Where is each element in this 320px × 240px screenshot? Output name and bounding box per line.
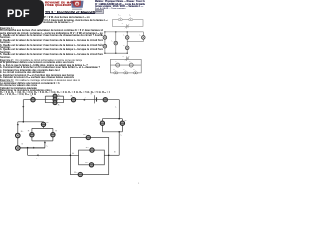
source G [15, 146, 20, 151]
circuit 2 [105, 32, 143, 53]
svg-text:L₂: L₂ [129, 14, 131, 16]
svg-text:I₂: I₂ [47, 145, 49, 147]
resistor Rg [78, 172, 82, 176]
lamp B3 [133, 72, 135, 74]
wire pair block output [44, 141, 46, 148]
battery G1 [126, 24, 128, 28]
svg-text:R₁₀: R₁₀ [83, 134, 86, 136]
wire pair block left branch [31, 128, 33, 141]
lamp D [125, 36, 129, 40]
lamp B2 [124, 72, 126, 74]
lamp F [125, 46, 129, 50]
logo emblem [71, 1, 84, 10]
lamp C [114, 41, 118, 45]
svg-text:L₃: L₃ [112, 40, 114, 42]
lamp M1 [116, 63, 120, 67]
svg-text:R₂: R₂ [58, 95, 61, 97]
svg-text:L₄: L₄ [123, 35, 125, 37]
lamp L1 [118, 19, 120, 21]
resistor Rf [89, 163, 93, 167]
wire right drop [118, 100, 120, 119]
svg-text:L₂: L₂ [129, 61, 131, 63]
wire pair block top rail [32, 127, 53, 129]
wire branch down to bottom bus [27, 148, 29, 156]
node parallel trio left rail [44, 96, 46, 103]
resistor R4 [53, 101, 57, 105]
battery E [94, 95, 96, 103]
lamp B [103, 44, 107, 48]
wire source to block [20, 147, 45, 149]
resistor R5 [71, 98, 75, 102]
svg-text:R₈: R₈ [21, 131, 24, 133]
svg-text:R: R [28, 130, 30, 132]
svg-text:I₁: I₁ [115, 107, 117, 109]
big circuit wires [33, 147, 35, 149]
resistor R8 [120, 121, 124, 125]
svg-text:E: E [123, 56, 125, 58]
wire left drop [22, 100, 24, 122]
lamp M2 [129, 63, 133, 67]
circuit 1 [112, 20, 143, 27]
lamp E [142, 36, 146, 40]
node parallel trio right rail [63, 96, 65, 103]
svg-text:I: I [85, 97, 86, 99]
inner box loop [79, 150, 105, 165]
svg-text:L₅: L₅ [139, 35, 141, 37]
circuit 3 [110, 59, 141, 73]
svg-text:I: I [37, 158, 38, 160]
current arrow I [83, 99, 86, 101]
svg-text:E: E [91, 93, 93, 95]
svg-text:L₁: L₁ [119, 14, 121, 16]
svg-text:R₆: R₆ [99, 120, 102, 122]
svg-text:G: G [122, 23, 124, 25]
svg-text:R: R [55, 130, 57, 132]
svg-text:L₆: L₆ [123, 45, 125, 47]
svg-text:B: B [114, 152, 116, 154]
svg-text:R₁₃: R₁₃ [74, 172, 77, 174]
svg-text:R₇: R₇ [125, 120, 128, 122]
svg-text:A: A [72, 152, 74, 155]
resistor R6 [103, 98, 107, 102]
svg-text:R₃: R₃ [58, 98, 61, 100]
wire bottom bus right part [104, 154, 119, 156]
svg-text:L₃: L₃ [113, 69, 115, 71]
wire pair block bottom rail [32, 140, 53, 142]
resistor R1 [31, 98, 35, 102]
svg-text:R₁₁: R₁₁ [86, 147, 89, 149]
outer box loop [70, 138, 108, 175]
wire bottom bus [28, 154, 79, 156]
resistor R2 [53, 94, 57, 98]
wire top rail [23, 99, 119, 101]
wire pair block right branch [52, 128, 54, 141]
resistor Rd [86, 135, 90, 139]
svg-text:R₄: R₄ [58, 105, 61, 107]
pdf badge [0, 0, 44, 26]
wire feed to pair block [43, 122, 45, 129]
wire trio bottom branch [45, 102, 63, 104]
resistor Re [90, 148, 94, 152]
battery G3 [126, 56, 128, 60]
svg-text:R₁₂: R₁₂ [85, 162, 88, 164]
wire trio top branch [45, 95, 63, 97]
svg-text:R₅: R₅ [71, 95, 74, 97]
wire mid parallel block right branch [121, 119, 123, 132]
resistor Rb [30, 133, 34, 137]
svg-text:L₅: L₅ [133, 69, 135, 71]
resistor R7 [100, 121, 104, 125]
svg-text:L₄: L₄ [123, 69, 125, 71]
resistor Rc [51, 133, 55, 137]
wire mid parallel block left branch [101, 119, 103, 132]
lamp A [103, 36, 107, 40]
wire left rail [18, 121, 44, 123]
svg-text:I₃: I₃ [121, 134, 123, 136]
wire mid parallel block top rail [102, 118, 122, 120]
svg-text:G: G [21, 144, 23, 146]
wire down from mid block [118, 132, 120, 156]
lamp B1 [114, 72, 116, 74]
svg-text:R₉: R₉ [46, 122, 49, 124]
resistor Ra [41, 122, 45, 126]
wire mid parallel block bottom rail [102, 131, 122, 133]
resistor R3 [53, 98, 57, 102]
wire left branch down [17, 122, 19, 146]
resistor R9 [15, 133, 20, 138]
wire source link [18, 148, 45, 150]
lamp L2 [129, 19, 131, 21]
